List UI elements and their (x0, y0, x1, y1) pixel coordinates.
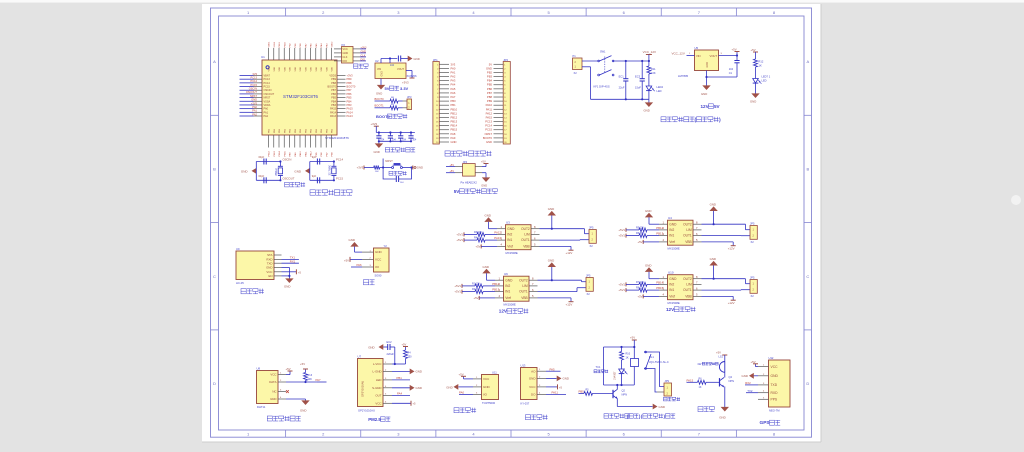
cap C1 (729, 56, 740, 78)
ext power pins (446, 164, 482, 173)
led7 gnd (750, 93, 760, 103)
svg-text:C1: C1 (729, 71, 733, 75)
svg-text:GND: GND (644, 108, 650, 112)
svg-text:GND: GND (742, 374, 748, 378)
svg-text:U11: U11 (492, 371, 497, 375)
crystal circuit 8MHz (Y1, C30pF) (241, 155, 295, 184)
svg-text:104: 104 (390, 64, 395, 67)
caption 12V zhiliu dianji left (499, 309, 529, 314)
svg-text:Q4: Q4 (729, 375, 733, 379)
svg-text:MX1508E: MX1508E (668, 246, 680, 250)
relay +5V port (630, 336, 637, 347)
svg-text:PC13: PC13 (251, 75, 258, 79)
buzzer base resistor R6 (687, 377, 720, 389)
svg-text:U9: U9 (236, 247, 240, 251)
boot resistors R8 R9 (375, 97, 408, 110)
svg-text:KF1 DIP-4SS: KF1 DIP-4SS (594, 84, 610, 88)
sheet right shadow (820, 4, 822, 442)
svg-text:VDD: VDD (305, 66, 307, 71)
download port P2 body (342, 47, 354, 64)
caption fengmingqi (698, 407, 714, 412)
svg-text:LED4: LED4 (657, 85, 664, 89)
svg-text:PB15: PB15 (451, 128, 458, 132)
caption BOOT0 shezhi dianlu (376, 114, 407, 119)
svg-text:PB7: PB7 (487, 91, 493, 95)
relay cap TC1 labels (594, 365, 608, 373)
svg-text:PA1: PA1 (252, 109, 257, 113)
switch KF1 (598, 56, 614, 76)
svg-text:1K: 1K (759, 63, 762, 67)
buzzer transistor Q4 (720, 372, 735, 407)
motor driver U10 block (618, 257, 757, 305)
servo gnd (349, 238, 363, 252)
svg-text:10K: 10K (308, 378, 313, 381)
svg-text:+5V: +5V (716, 350, 721, 354)
crystal circuit 32.768K (Y2) (294, 155, 343, 184)
svg-text:PB15: PB15 (656, 286, 663, 290)
svg-text:MX1508E: MX1508E (506, 251, 518, 255)
svg-text:OUT: OUT (375, 394, 381, 398)
svg-text:PA15: PA15 (687, 378, 694, 382)
pm25 inner vertical name (361, 381, 365, 397)
svg-text:220uF: 220uF (387, 352, 395, 356)
svg-text:PA13: PA13 (347, 114, 354, 118)
caption 5V to 3.3V (385, 86, 409, 91)
svg-text:GP2Y1010AU: GP2Y1010AU (358, 408, 375, 412)
servo U6 body (374, 244, 390, 272)
mcu left pin names (264, 75, 275, 119)
svg-text:PA1: PA1 (264, 111, 269, 114)
svg-text:JP5: JP5 (750, 222, 755, 226)
svg-text:PA10: PA10 (299, 151, 302, 157)
download port right pins and wires (353, 49, 366, 61)
svg-text:+5V: +5V (449, 170, 454, 173)
caption duoji (364, 280, 375, 285)
svg-text:I/O: I/O (375, 265, 380, 269)
mcu right pin names (328, 75, 337, 119)
svg-text:JP5: JP5 (750, 276, 755, 280)
svg-text:+12V: +12V (566, 303, 573, 307)
svg-text:PA9: PA9 (451, 136, 456, 140)
filter caps C5-C8 (376, 131, 417, 142)
svg-text:OSCOUT: OSCOUT (283, 176, 295, 180)
svg-text:+3V3: +3V3 (251, 101, 258, 105)
svg-text:10K: 10K (375, 171, 379, 173)
svg-text:OUT1: OUT1 (519, 290, 528, 294)
svg-text:PA13: PA13 (494, 236, 501, 240)
ir footprint (482, 401, 496, 405)
mcu top pin labels (269, 41, 334, 48)
svg-text:VCC: VCC (375, 401, 381, 405)
power connector P1 footprint (574, 71, 578, 75)
svg-text:OSCOUT: OSCOUT (246, 90, 258, 94)
caption wenshidu chuanganqi (267, 416, 301, 421)
svg-text:GND: GND (300, 408, 306, 412)
svg-text:3V3: 3V3 (451, 62, 456, 66)
boot jumper JP3 (407, 95, 412, 109)
gps txd (745, 381, 758, 385)
svg-text:PA1: PA1 (451, 70, 456, 74)
svg-text:JP3: JP3 (407, 95, 412, 99)
svg-text:+5V: +5V (473, 296, 478, 300)
svg-text:GND: GND (750, 100, 756, 104)
svg-text:+5V1: +5V1 (454, 290, 461, 294)
svg-text:+5V: +5V (637, 240, 642, 244)
svg-text:BOOT0: BOOT0 (375, 97, 385, 101)
svg-text:OUT1: OUT1 (683, 234, 692, 238)
svg-text:JQC-5VDC-SL-C: JQC-5VDC-SL-C (649, 360, 669, 364)
header JP1 net labels (451, 62, 458, 144)
svg-text:PB13: PB13 (451, 120, 458, 124)
relay transistor Q2 (613, 385, 627, 407)
svg-text:3V3: 3V3 (252, 72, 257, 76)
svg-text:IN2: IN2 (669, 283, 674, 287)
svg-text:RX2: RX2 (745, 381, 751, 385)
svg-text:GND: GND (486, 140, 492, 144)
svg-text:STM32F103C8T6: STM32F103C8T6 (325, 136, 349, 140)
svg-text:12V: 12V (701, 104, 710, 109)
svg-text:LIM: LIM (522, 284, 528, 288)
svg-text:PA4: PA4 (397, 392, 403, 396)
svg-text:OUT2: OUT2 (683, 277, 692, 281)
svg-text:PB11: PB11 (451, 111, 458, 115)
svg-text:VBB: VBB (521, 296, 527, 300)
svg-text:BOOT0: BOOT0 (483, 136, 493, 140)
caption hongwai zheduan (454, 408, 476, 413)
svg-text:LED: LED (762, 78, 767, 82)
svg-text:PB11: PB11 (279, 42, 281, 48)
ext power gnd (481, 173, 490, 188)
svg-text:OUT2: OUT2 (521, 227, 530, 231)
svg-text:LED: LED (376, 378, 382, 382)
svg-text:JP5: JP5 (586, 274, 591, 278)
svg-text:GND: GND (266, 266, 272, 270)
ext power footprint (461, 180, 478, 184)
svg-text:1K: 1K (699, 386, 702, 389)
svg-text:SW1: SW1 (600, 51, 606, 54)
mcu U1 designator (261, 55, 265, 59)
svg-text:VOUT: VOUT (397, 68, 404, 71)
svg-text:IN1: IN1 (505, 290, 510, 294)
svg-text:PB6: PB6 (331, 93, 336, 96)
svg-text:GND: GND (375, 250, 383, 254)
svg-text:JP2: JP2 (503, 58, 508, 62)
power gnd (644, 99, 654, 112)
svg-text:SG90: SG90 (375, 274, 382, 278)
svg-text:VDD: VDD (290, 66, 292, 71)
svg-text:OUT2: OUT2 (683, 222, 692, 226)
power VCC_12V port (643, 50, 656, 66)
svg-text:MX1508E: MX1508E (668, 301, 680, 305)
svg-text:Pin HEAD2X2: Pin HEAD2X2 (461, 180, 478, 184)
svg-text:22uF: 22uF (619, 86, 625, 90)
power top rail (613, 60, 650, 62)
relay contact wires (652, 352, 664, 392)
header JP1 pin numbers (436, 64, 439, 144)
dht11 pins (269, 373, 286, 402)
svg-text:RXD: RXD (771, 391, 779, 395)
caption 12V to 5V (701, 104, 721, 109)
svg-text:PPS: PPS (771, 398, 778, 402)
bluetooth pins (266, 253, 281, 278)
regulator ground (376, 79, 385, 96)
svg-text:NRST: NRST (264, 97, 271, 100)
svg-text:R12: R12 (759, 59, 764, 63)
svg-text:PA0: PA0 (264, 108, 269, 111)
svg-text:5V: 5V (385, 86, 390, 91)
svg-text:JP5: JP5 (589, 226, 594, 230)
svg-text:+5V1: +5V1 (456, 238, 463, 242)
svg-text:NC: NC (272, 390, 276, 394)
caption xiazaikou (354, 64, 369, 68)
svg-text:TX2: TX2 (747, 389, 753, 393)
svg-text:X2: X2 (590, 244, 594, 248)
svg-text:PA2: PA2 (252, 112, 257, 116)
pm25 cap EC2 and gnd (368, 340, 405, 365)
sound gnd (546, 376, 569, 382)
svg-text:PB7: PB7 (347, 88, 352, 92)
gps rxd (746, 389, 758, 393)
svg-text:OSCIN: OSCIN (283, 158, 292, 162)
svg-text:GND: GND (284, 285, 290, 289)
svg-text:+3V3: +3V3 (361, 46, 368, 49)
svg-text:PC15: PC15 (251, 83, 258, 87)
svg-text:VDD: VDD (284, 66, 286, 71)
svg-text:+5V: +5V (449, 164, 454, 167)
svg-text:PB13: PB13 (492, 288, 499, 292)
svg-text:+5V: +5V (459, 372, 464, 376)
sound vcc +5V (546, 384, 563, 389)
svg-text:NRST: NRST (250, 94, 257, 98)
gps gnd (742, 373, 759, 379)
regulator +3V3 output (402, 71, 415, 85)
svg-text:R13: R13 (308, 374, 313, 377)
svg-text:PC15: PC15 (485, 128, 492, 132)
svg-text:VDD2: VDD2 (332, 41, 334, 48)
regulator U5 7805 body (695, 46, 719, 70)
header JP2 pin numbers (504, 64, 507, 144)
svg-text:12V: 12V (666, 307, 675, 312)
svg-text:U5: U5 (695, 46, 699, 50)
svg-text:PA13: PA13 (330, 115, 337, 118)
svg-text:GND: GND (505, 278, 513, 282)
regulator 7805 input (672, 52, 695, 56)
svg-text:+12V: +12V (566, 251, 573, 255)
svg-text:PM2.5: PM2.5 (368, 417, 381, 422)
relay flyback led D1 (614, 360, 628, 385)
svg-text:30pF: 30pF (258, 174, 264, 178)
caption lanya mokuai (241, 289, 264, 294)
svg-text:IN1: IN1 (669, 234, 674, 238)
power connector P1 (573, 54, 583, 69)
svg-text:9pF: 9pF (312, 155, 317, 159)
svg-text:VSS1: VSS1 (274, 41, 276, 47)
svg-text:GND: GND (710, 203, 716, 207)
caption jidianqi kongzhi (604, 414, 675, 420)
pm25 out wire (392, 392, 410, 396)
svg-text:GND: GND (451, 140, 457, 144)
led LED4 (646, 74, 655, 99)
motor driver U6 block (454, 259, 593, 307)
buzzer +5V port (716, 350, 727, 361)
svg-text:PC14: PC14 (264, 82, 271, 85)
servo pins (362, 250, 383, 269)
svg-text:BOOT1: BOOT1 (375, 104, 385, 108)
svg-text:Q2: Q2 (622, 389, 626, 393)
svg-text:L-GND: L-GND (373, 370, 382, 374)
sheet outer border (211, 8, 812, 437)
svg-text:IN2: IN2 (505, 284, 510, 288)
svg-text:VCC_12V: VCC_12V (672, 52, 685, 56)
svg-text:VIN: VIN (696, 54, 701, 58)
svg-text:U10: U10 (668, 271, 674, 275)
svg-text:PB8: PB8 (331, 82, 336, 85)
caption fuwei dianlu (389, 171, 407, 175)
svg-text:Vref: Vref (669, 295, 675, 299)
svg-text:EN: EN (268, 274, 272, 278)
svg-text:L-VCC: L-VCC (373, 362, 382, 366)
svg-text:GND: GND (343, 52, 349, 55)
svg-text:R11: R11 (651, 67, 656, 71)
svg-text:+5V1: +5V1 (618, 288, 625, 292)
svg-text:PB5: PB5 (347, 96, 352, 100)
resistor R11 (647, 66, 656, 75)
svg-text:GND: GND (529, 377, 537, 381)
svg-text:KY-037: KY-037 (521, 401, 530, 405)
svg-text:PB12: PB12 (451, 115, 458, 119)
sound U13 body (521, 364, 538, 400)
svg-text:VIN: VIN (377, 68, 381, 71)
caption 12V zhiliu dianji right (666, 307, 696, 312)
svg-text:+12V: +12V (728, 247, 735, 251)
svg-text:PA6: PA6 (451, 91, 456, 95)
svg-text:+3V3: +3V3 (357, 166, 364, 170)
frame row ticks (211, 115, 812, 330)
sheet bottom shadow (202, 441, 821, 443)
power P1 pin wires (582, 61, 599, 67)
header JP2 net labels (483, 62, 493, 144)
cap EC1 22uF (619, 61, 629, 99)
svg-text:+5V: +5V (732, 48, 737, 52)
caption danpianji yinjiao waiyin paizhen (445, 151, 492, 156)
svg-text:PA12: PA12 (494, 231, 501, 235)
ir U11 body (482, 371, 499, 400)
header JP2 pin stubs (494, 64, 504, 142)
power bottom rail (591, 67, 649, 101)
svg-text:JP4: JP4 (463, 160, 468, 164)
svg-text:+3V3: +3V3 (402, 80, 409, 84)
svg-text:PB3: PB3 (487, 75, 493, 79)
svg-text:VBAT: VBAT (264, 75, 271, 78)
dht11 gnd (286, 399, 310, 412)
svg-text:GND: GND (416, 386, 422, 390)
relay contacts (644, 351, 652, 369)
svg-text:+5V: +5V (751, 48, 756, 52)
header JP1 pin stubs (439, 64, 449, 142)
filter caps ground (374, 141, 384, 154)
sound do wire (546, 391, 566, 395)
svg-text:150: 150 (408, 355, 413, 358)
svg-text:VCC: VCC (343, 48, 348, 51)
svg-text:PB0: PB0 (451, 99, 457, 103)
relay coil RL1 (631, 347, 639, 385)
svg-text:U4: U4 (668, 216, 672, 220)
mcu footprint label STM32F103C8T6 (325, 136, 349, 140)
ext power +5V (481, 160, 489, 167)
svg-text:TXD: TXD (771, 383, 778, 387)
svg-text:GND: GND (485, 214, 491, 218)
svg-text:PB4: PB4 (347, 99, 352, 103)
relay top rail (604, 346, 636, 348)
svg-text:+5V: +5V (286, 367, 291, 371)
mcu right pin stubs (337, 76, 346, 117)
resistor R12 (754, 59, 764, 67)
svg-text:PA12: PA12 (486, 111, 493, 115)
svg-text:U2: U2 (375, 59, 379, 63)
svg-text:U8: U8 (257, 367, 261, 371)
header JP2 body (503, 58, 510, 144)
svg-text:PA0: PA0 (252, 105, 257, 109)
svg-text:PA15: PA15 (486, 115, 493, 119)
svg-text:PB4: PB4 (331, 100, 336, 103)
svg-text:GND: GND (486, 66, 492, 70)
dht11 U8 body (257, 367, 279, 404)
mcu bottom net labels (269, 150, 334, 156)
svg-text:5V: 5V (714, 104, 721, 109)
svg-text:104: 104 (729, 67, 734, 71)
svg-text:I/O: I/O (483, 393, 488, 397)
svg-text:X2: X2 (574, 71, 578, 75)
svg-text:PB10: PB10 (451, 107, 458, 111)
svg-text:VDD: VDD (274, 66, 276, 71)
filter caps +3V3 rail (371, 122, 415, 132)
svg-text:OSCOUT: OSCOUT (264, 93, 275, 96)
svg-text:GND: GND (374, 150, 380, 154)
svg-text:JP9: JP9 (665, 379, 670, 383)
svg-text:Vref: Vref (507, 245, 513, 249)
svg-text:GND: GND (719, 415, 725, 419)
svg-text:GND: GND (270, 397, 276, 401)
reset wire to node (380, 166, 392, 168)
dht11 nc no-connect (286, 390, 289, 393)
svg-text:PC15: PC15 (264, 86, 271, 89)
svg-text:X2: X2 (751, 240, 755, 244)
svg-text:PB9: PB9 (487, 99, 493, 103)
svg-text:S-GND: S-GND (372, 386, 381, 390)
regulator 7805 output wire (719, 53, 739, 57)
svg-text:PA15: PA15 (347, 107, 354, 111)
mcu left pin stubs (254, 76, 263, 117)
svg-text:+5V: +5V (751, 360, 756, 364)
svg-text:GND: GND (669, 222, 677, 226)
svg-text:OUT1: OUT1 (683, 288, 692, 292)
caption shengyin jiance (526, 415, 548, 420)
svg-text:EC2: EC2 (387, 340, 393, 344)
svg-text:PA2: PA2 (451, 75, 456, 79)
svg-text:OSCIN: OSCIN (249, 87, 257, 91)
svg-text:PB6: PB6 (347, 92, 352, 96)
svg-text:LED: LED (657, 89, 662, 93)
mcu left net labels (246, 72, 258, 117)
gps pins (758, 365, 778, 402)
svg-text:PB1: PB1 (397, 376, 403, 380)
power +5V port (732, 48, 740, 56)
svg-text:VDD: VDD (332, 66, 334, 71)
relay emitter gnd (617, 404, 665, 410)
frame row letters (213, 59, 809, 386)
svg-text:PC14: PC14 (485, 124, 492, 128)
svg-text:PA7: PA7 (316, 378, 322, 382)
